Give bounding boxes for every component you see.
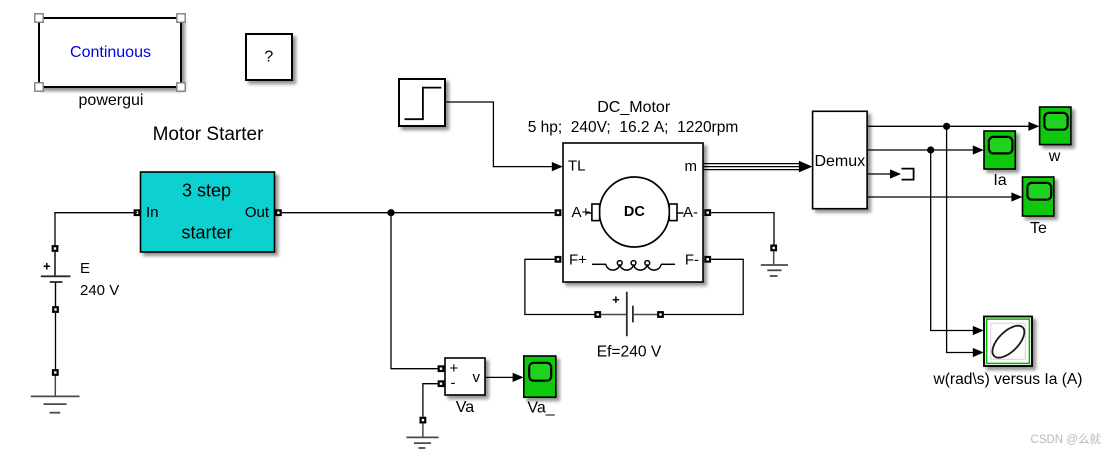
powergui block U_powergui (39, 18, 181, 87)
wire Va - to ground G3 (423, 384, 438, 417)
wire from E battery + to In port (55, 213, 137, 246)
DC source Ef : long plate (626, 292, 628, 336)
svg-text:E: E (80, 260, 90, 277)
svg-text:A-: A- (683, 204, 698, 221)
brush lead right (677, 212, 684, 214)
svg-text:w(rad\s) versus Ia (A): w(rad\s) versus Ia (A) (932, 371, 1082, 388)
DC source E : long plate (41, 275, 71, 277)
svg-text:F+: F+ (569, 252, 587, 269)
node junction J3 on out2 (927, 146, 934, 153)
brush left (592, 204, 600, 221)
wire F- to Ef battery (664, 259, 743, 314)
svg-text:-: - (451, 375, 456, 392)
svg-text:Out: Out (245, 204, 270, 221)
svg-text:Continuous: Continuous (70, 44, 151, 61)
wire A- to ground G2 (711, 213, 774, 245)
port F+ (555, 256, 562, 263)
wire Out to A+ with node (282, 212, 554, 214)
ground G3 symbol (406, 424, 438, 448)
svg-text:Va: Va (456, 399, 474, 416)
svg-text:5 hp; 240V; 16.2 A; 1220rpm: 5 hp; 240V; 16.2 A; 1220rpm (528, 119, 739, 136)
terminator bracket (902, 169, 914, 180)
ground G2 symbol (761, 251, 788, 276)
DC source Ef : short plate (632, 306, 634, 323)
step source block (399, 79, 445, 126)
DC source E : short plate (50, 281, 63, 283)
selection handles of powergui (35, 14, 185, 91)
DC source Ef : left stub (601, 314, 626, 316)
DC source E : + port (52, 245, 59, 252)
svg-text:Te: Te (1030, 220, 1047, 237)
svg-text:v: v (473, 369, 481, 386)
DC source E : bottom stub wire (55, 282, 57, 306)
field inductor loops (617, 261, 649, 266)
arrowhead into scope Va_ (513, 373, 524, 382)
brush lead left (587, 212, 593, 214)
ground G3 port (420, 417, 427, 424)
svg-text:DC: DC (624, 204, 645, 220)
subsystem block 3 step starter (141, 172, 275, 252)
arrowhead into XY lower input (973, 348, 984, 357)
wire E- to ground (55, 313, 57, 369)
XY graph block (984, 317, 1032, 367)
DC source E : - port (52, 306, 59, 313)
node junction J1 (387, 209, 394, 216)
svg-text:Va_: Va_ (527, 400, 555, 417)
ground G1 symbol (31, 376, 80, 413)
ground G2 port (770, 245, 777, 252)
wire J3 down to XY graph upper input (931, 150, 974, 331)
arrowhead into scope Ia (973, 145, 984, 154)
scope Va_ (524, 356, 556, 397)
svg-text:F-: F- (685, 252, 699, 269)
port Va - (438, 380, 445, 387)
DC source Ef : right stub (634, 314, 657, 316)
arrowhead at terminator (890, 169, 901, 178)
wire J1 down to Va + input (391, 213, 438, 369)
port Out of starter (275, 209, 282, 216)
wire Demux out3 to terminator (867, 173, 890, 175)
svg-text:240 V: 240 V (80, 282, 119, 299)
wire Va v out to scope Va_ (485, 376, 513, 378)
field inductor left lead (592, 263, 606, 265)
wire J2 down to XY graph lower input (947, 126, 974, 352)
motor armature circle (599, 177, 669, 247)
svg-text:In: In (146, 204, 159, 221)
svg-text:m: m (685, 158, 698, 175)
port A+ (555, 209, 562, 216)
DC_Motor block body (563, 143, 703, 282)
DC source E : top stub wire (54, 252, 56, 276)
port Va + (438, 365, 445, 372)
svg-text:Demux: Demux (814, 153, 865, 170)
port In of starter (134, 209, 141, 216)
svg-text:starter: starter (181, 223, 232, 243)
svg-text:3 step: 3 step (182, 181, 231, 201)
svg-text:w: w (1048, 148, 1061, 165)
DC source E : + sign (44, 263, 50, 270)
wire m to Demux (vector triple line) (703, 164, 803, 170)
field inductor right lead (661, 263, 675, 265)
scope Te (1023, 177, 1054, 216)
DC source Ef : left port (594, 311, 601, 318)
arrowhead into scope Te (1011, 192, 1022, 201)
DC source Ef : right port (657, 311, 664, 318)
ground G1 port (52, 369, 59, 376)
scope w (1040, 107, 1071, 145)
svg-text:TL: TL (568, 158, 586, 175)
svg-text:DC_Motor: DC_Motor (597, 99, 671, 116)
port A- (704, 209, 711, 216)
Demux block (813, 111, 868, 208)
port F- (704, 256, 711, 263)
DC source Ef : + sign (613, 297, 619, 303)
wire step to TL (445, 102, 552, 167)
svg-text:CSDN @么就: CSDN @么就 (1031, 432, 1102, 446)
documentation block ? (246, 34, 292, 80)
scope Ia (984, 131, 1015, 169)
field inductor coil (606, 264, 661, 270)
wire Demux out1 to scope w (867, 125, 1029, 127)
svg-text:Ef=240 V: Ef=240 V (597, 344, 662, 361)
svg-text:powergui: powergui (79, 92, 144, 109)
arrowhead into TL (552, 162, 563, 171)
svg-text:?: ? (264, 49, 273, 66)
arrowhead into XY upper input (973, 326, 984, 335)
wire Demux out4 to scope Te (867, 196, 1012, 198)
arrowhead into Demux (799, 161, 813, 173)
voltage measurement block Va (445, 358, 485, 395)
svg-text:Ia: Ia (993, 172, 1006, 189)
brush right (669, 204, 677, 221)
wire F+ to Ef battery (525, 259, 595, 314)
node junction J2 on out1 (943, 123, 950, 130)
wire Demux out2 to scope Ia (867, 149, 973, 151)
svg-text:Motor Starter: Motor Starter (153, 124, 265, 145)
arrowhead into scope w (1028, 122, 1039, 131)
